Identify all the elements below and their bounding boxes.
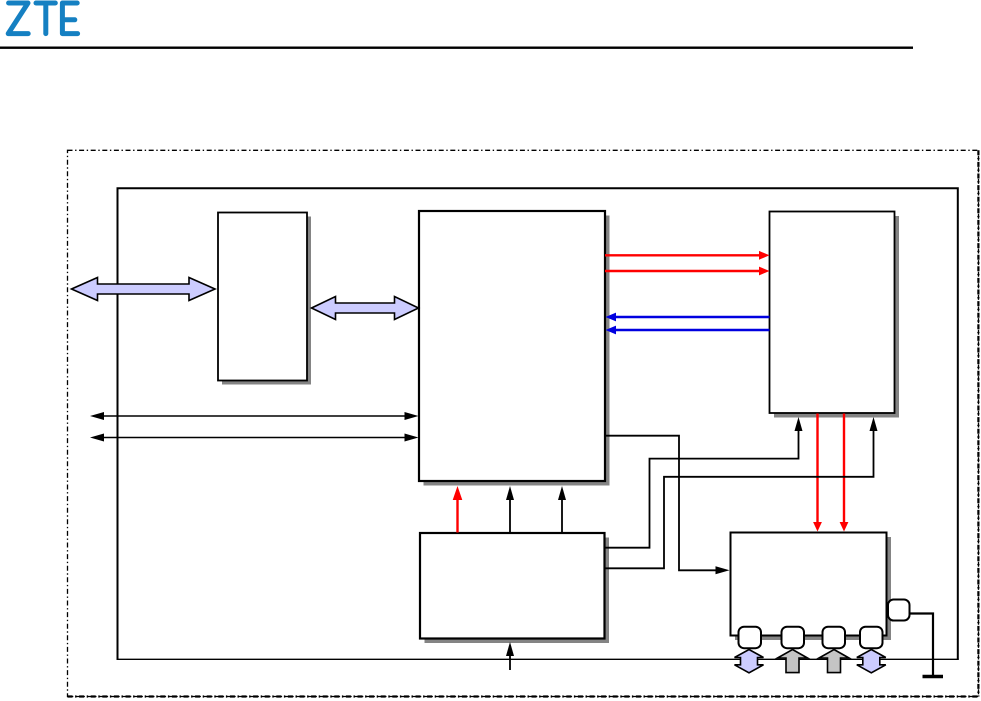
red arrow R2 (B2 to B3) <box>605 267 770 276</box>
blue arrow BL2 (B3 to B2) <box>606 326 770 335</box>
port P1 on B5 bottom <box>739 627 762 649</box>
block B4 (bottom-middle) <box>420 533 605 639</box>
port P3 on B5 bottom <box>823 627 846 649</box>
wire C (B4 right to B3 bottom) <box>605 417 878 568</box>
block B4 (bottom-middle) shadow <box>425 538 610 644</box>
red arrow R1 (B2 to B3) <box>605 251 770 260</box>
black arrow K3 (bottom into B4) <box>506 642 514 670</box>
block arrow BA1 (left bidirectional bus) <box>72 278 216 301</box>
red arrow R5 (B3 down to B5) <box>840 414 849 532</box>
block B3 (right) <box>770 212 895 414</box>
main enclosure rectangle <box>118 188 958 659</box>
red arrow R4 (B3 down to B5) <box>813 414 822 532</box>
ground <box>923 675 944 679</box>
block B3 (right) shadow <box>774 216 899 418</box>
double-headed arrow D2 <box>90 434 419 442</box>
black arrow K2 (B4 up to B2) <box>558 486 566 533</box>
blue arrow BL1 (B3 to B2) <box>606 313 770 322</box>
dash-dot outer frame <box>68 150 979 696</box>
block arrow BA4 (gray, below P2) <box>778 650 808 673</box>
wire B (B4 right to B3 bottom) <box>605 417 803 548</box>
black arrow K1 (B4 up to B2) <box>506 486 514 533</box>
dash-dot frame right edge <box>977 150 979 696</box>
block arrow BA5 (gray, below P3) <box>819 650 849 673</box>
block arrow BA2 (bus between B1 and B2) <box>312 297 419 320</box>
block B1 (top-left) <box>218 213 307 381</box>
wire A (B2 right to B5 left) <box>605 436 730 575</box>
block arrow BA6 (lavender, below P4) <box>857 650 886 673</box>
port P4 on B5 bottom <box>860 627 883 649</box>
port P2 on B5 bottom <box>782 627 805 649</box>
block arrow BA3 (lavender, below P1) <box>735 650 764 673</box>
header rule <box>0 47 913 49</box>
double-headed arrow D1 <box>90 412 419 420</box>
red arrow R3 (B4 up to B2) <box>453 486 463 533</box>
wire from P5 to ground <box>910 614 934 676</box>
dash-dot frame bottom edge <box>68 695 979 697</box>
port P5 on B5 right <box>888 600 910 621</box>
block B1 (top-left) shadow <box>222 217 311 385</box>
block B5 (bottom-right) <box>731 533 887 636</box>
block B2 (center) shadow <box>424 216 610 486</box>
ZTE logo <box>8 3 77 34</box>
block B5 (bottom-right) shadow <box>735 537 891 640</box>
block B2 (center) <box>419 211 605 481</box>
